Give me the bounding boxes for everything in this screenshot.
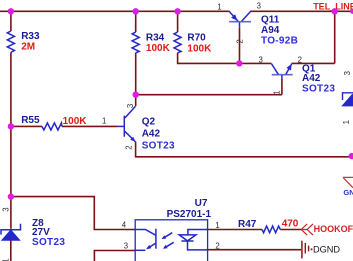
transistor Q1 bbox=[259, 55, 336, 94]
zener diode Z8 bbox=[1, 207, 65, 261]
svg-text:2M: 2M bbox=[21, 41, 35, 52]
svg-text:A42: A42 bbox=[302, 73, 321, 84]
svg-text:100K: 100K bbox=[187, 43, 212, 54]
ground symbol GND (partial, bottom right) bbox=[343, 177, 353, 196]
wire left vertical rail upper bbox=[10, 11, 12, 31]
svg-text:U7: U7 bbox=[195, 198, 208, 209]
svg-text:Q2: Q2 bbox=[142, 117, 156, 128]
svg-text:2: 2 bbox=[235, 39, 244, 43]
wire Q11 base drop bbox=[239, 28, 241, 64]
wire Q1 base drop bbox=[281, 79, 283, 95]
svg-text:SOT23: SOT23 bbox=[32, 237, 65, 248]
wire Q2 collector riser bbox=[135, 95, 137, 106]
svg-text:3: 3 bbox=[126, 104, 135, 108]
junction node right edge emitter rail bbox=[349, 153, 353, 159]
junction node R55 bbox=[8, 123, 14, 129]
junction node R34 bottom / Q2 collector bbox=[133, 92, 139, 98]
svg-text:3: 3 bbox=[259, 56, 263, 65]
wire R55 left lead bbox=[11, 125, 42, 127]
wire left rail below zener bbox=[10, 240, 12, 261]
svg-text:GND: GND bbox=[343, 188, 353, 197]
wire R70 bottom lead and run to Q11 base node bbox=[178, 53, 240, 64]
junction node R34 top bbox=[133, 8, 139, 14]
transistor Q11 bbox=[217, 1, 298, 46]
junction node U7 branch bbox=[8, 193, 14, 199]
junction node TEL_LINE rail bbox=[332, 8, 338, 14]
svg-text:1: 1 bbox=[217, 2, 221, 11]
wire right vertical rail bbox=[334, 11, 336, 63]
U7 phototransistor bbox=[135, 229, 156, 251]
wire R34 top lead bbox=[135, 11, 137, 32]
junction node Q11 base / Q1 collector bbox=[236, 60, 242, 66]
svg-text:3: 3 bbox=[2, 207, 11, 211]
wire top rail right segment to TEL_LINE bbox=[251, 10, 353, 12]
junction node R70 top bbox=[174, 8, 180, 14]
svg-text:SOT23: SOT23 bbox=[142, 141, 175, 152]
wire Q1 emitter to right rail bbox=[292, 62, 335, 64]
wire R70 top lead bbox=[177, 11, 179, 32]
svg-text:1: 1 bbox=[215, 221, 219, 230]
svg-text:3: 3 bbox=[343, 71, 352, 75]
resistor R33 bbox=[7, 31, 40, 52]
diode D? at right edge (cut off by crop) bbox=[341, 71, 353, 124]
wire U7 pin3 from bottom edge bbox=[94, 251, 135, 261]
wire left rail to U7 pin4 bbox=[11, 197, 135, 230]
wire node to Q1 collector bbox=[239, 62, 271, 64]
svg-text:A42: A42 bbox=[142, 129, 161, 140]
svg-text:2: 2 bbox=[124, 145, 133, 149]
svg-text:R55: R55 bbox=[21, 115, 40, 126]
svg-text:PS2701-1: PS2701-1 bbox=[167, 209, 212, 220]
wire U7 pin1 to R47 bbox=[208, 229, 262, 231]
U7 LED bbox=[179, 230, 207, 250]
svg-text:R34: R34 bbox=[146, 33, 165, 44]
svg-text:1: 1 bbox=[273, 90, 282, 94]
svg-text:TO-92B: TO-92B bbox=[261, 36, 298, 47]
off-page port HOOKOF bbox=[301, 224, 353, 235]
wire Q2 emitter drop and run to right edge bbox=[136, 142, 352, 157]
wire R47 to HOOKOF port bbox=[280, 229, 301, 231]
svg-text:2: 2 bbox=[215, 242, 219, 251]
svg-text:100K: 100K bbox=[146, 43, 171, 54]
svg-text:4: 4 bbox=[122, 220, 127, 229]
svg-text:R33: R33 bbox=[21, 31, 40, 42]
wire left vertical rail lower bbox=[10, 52, 12, 228]
svg-text:470: 470 bbox=[282, 219, 299, 230]
resistor R55 bbox=[21, 115, 87, 130]
svg-text:DGND: DGND bbox=[313, 244, 340, 254]
wire base row from R34 node to Q1 base bbox=[136, 94, 282, 96]
transistor Q2 bbox=[102, 104, 175, 152]
svg-text:3: 3 bbox=[257, 1, 261, 10]
junction node top-left bbox=[8, 8, 14, 14]
optocoupler U7 box bbox=[122, 198, 220, 261]
U7 light arrows bbox=[162, 233, 174, 249]
junction node at right edge top bbox=[350, 9, 353, 14]
power symbol DGND bbox=[302, 241, 341, 259]
svg-text:1: 1 bbox=[102, 116, 106, 125]
resistor R47 bbox=[238, 219, 299, 233]
wire R34 bottom lead to node bbox=[135, 53, 137, 95]
svg-text:Q11: Q11 bbox=[261, 15, 280, 26]
svg-text:3: 3 bbox=[124, 241, 128, 250]
wire U7 pin2 to DGND bbox=[208, 249, 301, 251]
svg-text:1: 1 bbox=[342, 120, 351, 124]
wire top rail left segment bbox=[0, 10, 229, 12]
svg-text:R47: R47 bbox=[238, 219, 257, 230]
resistor R70 bbox=[174, 32, 212, 54]
svg-text:HOOKOFF: HOOKOFF bbox=[314, 224, 353, 234]
svg-text:R70: R70 bbox=[187, 33, 206, 44]
svg-text:SOT23: SOT23 bbox=[302, 83, 335, 94]
svg-text:A94: A94 bbox=[261, 25, 280, 36]
wire R55 right lead to Q2 base bbox=[62, 125, 118, 127]
resistor R34 bbox=[132, 32, 170, 54]
svg-text:100K: 100K bbox=[63, 116, 88, 127]
